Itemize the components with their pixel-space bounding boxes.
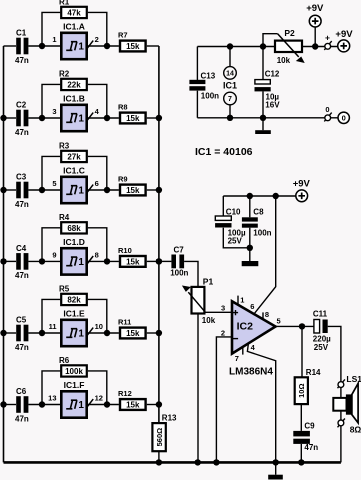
node junction left bus stage 2 <box>0 115 6 121</box>
inverter IC1.F <box>61 380 93 418</box>
wire P2 right to +9V terminals <box>302 46 338 48</box>
pin 9 (IC1.D input) <box>52 250 56 259</box>
svg-text:1: 1 <box>78 42 84 53</box>
wire IC1.F output to R12 <box>88 404 119 406</box>
node junction P1 ground <box>195 459 201 465</box>
svg-text:+9V: +9V <box>335 29 353 40</box>
capacitor C3 <box>15 173 29 209</box>
wire R7 to mix bus <box>147 45 159 47</box>
resistor R9 <box>118 175 146 196</box>
svg-text:R7: R7 <box>118 31 128 40</box>
svg-text:IC1: IC1 <box>223 81 237 91</box>
wire feedback left (input up to R6) <box>42 371 60 405</box>
svg-text:8Ω: 8Ω <box>350 424 361 434</box>
inverter IC1.E <box>61 308 93 346</box>
wire feedback right (R5 to output) <box>88 299 107 333</box>
node junction IC1 pin7 bottom <box>227 115 233 121</box>
svg-text:1: 1 <box>78 329 84 340</box>
pin 12 (IC1.F output) <box>95 393 103 402</box>
wire C1 to IC1.A input <box>28 45 60 47</box>
node output junction stage 4 <box>104 258 110 264</box>
node junction C9 ground <box>298 459 304 465</box>
pin 1 (IC1.A input) <box>52 35 56 44</box>
svg-text:R8: R8 <box>118 103 128 112</box>
svg-text:C12: C12 <box>265 70 280 79</box>
node junction mix bus stage 3 <box>156 187 162 193</box>
svg-text:560Ω: 560Ω <box>155 428 164 447</box>
node junction R13 ground <box>156 459 162 465</box>
node input junction stage 6 <box>39 401 45 407</box>
node junction left bus stage 4 <box>0 258 6 264</box>
resistor R6 <box>59 356 87 376</box>
svg-text:6: 6 <box>95 179 99 188</box>
svg-text:C10: C10 <box>226 207 241 216</box>
pin 2 (IC1.A output) <box>95 35 99 44</box>
pin 3 (IC1.B input) <box>52 107 56 116</box>
ground symbol power section <box>255 121 271 135</box>
capacitor C6 <box>15 387 29 423</box>
wire LS1 bottom to ground rail <box>340 426 342 463</box>
svg-text:1: 1 <box>78 400 84 411</box>
svg-text:R12: R12 <box>118 389 132 398</box>
node input junction stage 5 <box>39 330 45 336</box>
svg-text:3: 3 <box>221 303 225 312</box>
capacitor C10 <box>215 196 250 248</box>
op-amp IC2 LM386 <box>232 301 276 353</box>
node output junction stage 2 <box>104 115 110 121</box>
wire P1 wiper to pin3 <box>205 311 232 313</box>
svg-text:7: 7 <box>228 96 232 103</box>
wire R8 to mix bus <box>147 117 159 119</box>
resistor R14 <box>295 368 321 404</box>
capacitor C9 <box>293 422 318 452</box>
node junction pin6 rail <box>273 193 279 199</box>
wire IC1.E output to R11 <box>88 332 119 334</box>
wire feedback left (input up to R4) <box>42 228 60 262</box>
inverter IC1.C <box>61 165 93 203</box>
node output junction stage 3 <box>104 187 110 193</box>
svg-text:16V: 16V <box>265 101 280 110</box>
svg-text:C13: C13 <box>201 72 216 81</box>
node junction C12 top <box>260 43 266 49</box>
wire IC1.A output to R7 <box>88 45 119 47</box>
svg-text:1: 1 <box>78 114 84 125</box>
svg-text:8: 8 <box>265 310 269 319</box>
svg-text:8: 8 <box>95 250 99 259</box>
svg-text:R1: R1 <box>59 0 70 7</box>
resistor R11 <box>118 318 146 339</box>
svg-text:82k: 82k <box>67 295 81 304</box>
svg-text:47n: 47n <box>15 414 29 423</box>
pin 7 (IC2) <box>235 347 243 363</box>
svg-text:47k: 47k <box>67 8 81 17</box>
svg-text:22k: 22k <box>67 80 81 89</box>
pin 3 (IC2) <box>221 303 225 312</box>
wire feedback right (R2 to output) <box>88 84 107 118</box>
svg-text:100n: 100n <box>253 229 271 238</box>
wire bottom ground rail <box>4 461 341 464</box>
svg-text:25V: 25V <box>228 237 243 246</box>
svg-text:R2: R2 <box>59 70 70 79</box>
svg-text:0: 0 <box>325 105 329 114</box>
svg-text:C9: C9 <box>304 422 315 431</box>
resistor R12 <box>118 389 146 410</box>
node input junction stage 4 <box>39 258 45 264</box>
node input junction stage 3 <box>39 187 45 193</box>
svg-text:2: 2 <box>221 328 225 337</box>
wire from left bus to C5 <box>4 332 17 334</box>
wire amp supply rail <box>223 195 295 197</box>
svg-text:47n: 47n <box>15 56 29 65</box>
svg-text:1: 1 <box>240 295 244 304</box>
capacitor C1 <box>15 29 29 65</box>
resistor R13 <box>152 414 177 452</box>
wire C5 to IC1.E input <box>28 332 60 334</box>
svg-text:47n: 47n <box>15 200 29 209</box>
svg-text:1: 1 <box>78 257 84 268</box>
wire feedback right (R3 to output) <box>88 156 107 190</box>
svg-text:C7: C7 <box>174 246 185 255</box>
svg-text:R13: R13 <box>162 414 177 423</box>
svg-text:2: 2 <box>95 35 99 44</box>
pin 10 (IC1.E output) <box>95 322 103 331</box>
svg-text:P1: P1 <box>203 276 214 286</box>
svg-text:C3: C3 <box>16 173 27 182</box>
svg-text:R11: R11 <box>118 318 131 327</box>
svg-text:1: 1 <box>78 186 84 197</box>
node junction C12 bottom <box>260 115 266 121</box>
svg-text:IC1 = 40106: IC1 = 40106 <box>195 146 253 158</box>
pin 13 (IC1.F input) <box>48 393 56 402</box>
inverter IC1.D <box>61 237 93 275</box>
wire R14 to C9 <box>300 404 302 431</box>
wire C2 to IC1.B input <box>28 117 60 119</box>
wire feedback right (R6 to output) <box>88 371 107 405</box>
svg-text:R4: R4 <box>59 213 70 222</box>
node junction mix bus stage 6 <box>156 401 162 407</box>
svg-text:C5: C5 <box>16 316 27 325</box>
node junction mix bus stage 5 <box>156 330 162 336</box>
node junction IC1 pin14 top <box>227 43 233 49</box>
pin 6 (IC2 supply) wire <box>250 196 276 314</box>
node junction left bus stage 5 <box>0 330 6 336</box>
wire IC1 supply top rail <box>197 46 275 48</box>
capacitor C2 <box>15 101 29 137</box>
pin 4 (IC1.B output) <box>95 107 100 116</box>
wire C4 to IC1.D input <box>28 260 60 262</box>
svg-text:100n: 100n <box>170 268 188 277</box>
svg-text:10Ω: 10Ω <box>297 384 306 398</box>
svg-text:R9: R9 <box>118 175 128 184</box>
svg-text:C4: C4 <box>16 244 27 253</box>
svg-text:47n: 47n <box>15 343 29 352</box>
power +9V supply circle amp <box>293 178 311 201</box>
svg-text:C11: C11 <box>313 309 328 318</box>
wire R11 to mix bus <box>147 332 159 334</box>
svg-text:P2: P2 <box>284 28 295 38</box>
node junction output <box>299 323 305 329</box>
wire IC1.B output to R8 <box>88 117 119 119</box>
node junction C8 top <box>247 193 253 199</box>
pin 1 (IC2) <box>238 295 244 305</box>
svg-text:C8: C8 <box>253 207 264 216</box>
wire feedback left (input up to R1) <box>42 12 60 46</box>
capacitor C7 <box>170 246 188 278</box>
svg-text:14: 14 <box>226 71 234 78</box>
svg-text:1: 1 <box>52 35 56 44</box>
label LM386N4 <box>229 367 273 378</box>
node junction mix bus stage 4 <box>156 258 162 264</box>
svg-text:15k: 15k <box>126 400 140 409</box>
svg-text:0: 0 <box>342 113 346 122</box>
pin 4 (IC2) wire <box>247 343 275 463</box>
svg-text:R14: R14 <box>306 368 321 377</box>
wire output to R14 <box>301 326 303 377</box>
svg-text:5: 5 <box>52 179 56 188</box>
node input junction stage 2 <box>39 115 45 121</box>
svg-text:IC1.E: IC1.E <box>63 308 85 318</box>
wire from left bus to C6 <box>4 404 17 406</box>
svg-text:C6: C6 <box>16 387 27 396</box>
wire IC1.D output to R10 <box>88 260 119 262</box>
wire from left bus to C2 <box>4 117 17 119</box>
pin 2 (IC2) wire <box>216 328 232 462</box>
capacitor C11 <box>313 309 331 352</box>
svg-text:68k: 68k <box>67 224 81 233</box>
svg-text:C1: C1 <box>16 29 27 38</box>
svg-text:C2: C2 <box>16 101 27 110</box>
wire feedback left (input up to R2) <box>42 84 60 118</box>
svg-text:IC1.B: IC1.B <box>63 93 85 103</box>
svg-text:100k: 100k <box>65 367 83 376</box>
svg-text:IC1.D: IC1.D <box>63 237 85 247</box>
wire C9 to ground rail <box>300 444 302 463</box>
resistor R8 <box>118 103 146 124</box>
node junction pin2 ground <box>213 459 219 465</box>
wire R9 to mix bus <box>147 189 159 191</box>
svg-text:47n: 47n <box>15 271 29 280</box>
pin 11 (IC1.E input) <box>49 322 57 331</box>
svg-text:27k: 27k <box>67 152 81 161</box>
wire right mix bus <box>158 46 160 423</box>
wire from left bus to C1 <box>4 45 17 47</box>
resistor R5 <box>59 285 87 305</box>
node terminal LS1 top <box>338 379 345 388</box>
node terminal LS1 bottom <box>338 419 345 428</box>
node input junction stage 1 <box>39 43 45 49</box>
wire from left bus to C4 <box>4 260 17 262</box>
label IC1 = 40106 <box>195 146 253 158</box>
svg-text:3: 3 <box>52 107 56 116</box>
pin 6 (IC1.C output) <box>95 179 99 188</box>
resistor R4 <box>59 213 87 234</box>
wire R10 to mix bus <box>147 260 159 262</box>
wire from left bus to C3 <box>4 189 17 191</box>
wire C6 to IC1.F input <box>28 404 60 406</box>
svg-text:15k: 15k <box>126 257 140 266</box>
svg-text:LS1: LS1 <box>346 374 361 384</box>
op-amp U IC1 supply pins <box>223 47 237 118</box>
node junction C7 tap <box>156 258 162 264</box>
svg-text:9: 9 <box>52 250 56 259</box>
svg-text:15k: 15k <box>126 329 140 338</box>
capacitor C8 <box>242 196 272 248</box>
node junction C8 bottom <box>247 245 253 251</box>
wire P1 bottom to ground rail <box>197 314 199 463</box>
svg-text:+9V: +9V <box>293 178 311 189</box>
svg-text:11: 11 <box>49 322 57 331</box>
wire R12 to mix bus <box>147 404 159 406</box>
svg-text:5: 5 <box>277 316 281 325</box>
svg-text:100n: 100n <box>201 91 219 100</box>
pin 8 (IC1.D output) <box>95 250 99 259</box>
svg-text:10: 10 <box>95 322 103 331</box>
svg-text:R3: R3 <box>59 142 70 151</box>
capacitor C13 <box>189 47 219 118</box>
svg-text:47n: 47n <box>304 443 318 452</box>
node junction left bus stage 3 <box>0 187 6 193</box>
pin 5 (IC1.C input) <box>52 179 56 188</box>
potentiometer P1 <box>184 276 216 325</box>
wire feedback left (input up to R5) <box>42 299 60 333</box>
svg-text:13: 13 <box>48 393 56 402</box>
svg-text:R5: R5 <box>59 285 70 294</box>
node output junction stage 6 <box>104 401 110 407</box>
resistor R7 <box>118 31 146 52</box>
pin 5 (IC2 output) wire <box>276 316 314 326</box>
capacitor C4 <box>15 244 29 280</box>
capacitor C12 <box>255 47 281 118</box>
svg-text:R6: R6 <box>59 356 70 365</box>
inverter IC1.B <box>61 93 93 131</box>
svg-text:6: 6 <box>250 302 254 311</box>
svg-text:7: 7 <box>235 354 239 363</box>
wire C7 to P1 <box>184 261 198 287</box>
wire IC1.C output to R9 <box>88 189 119 191</box>
svg-text:25V: 25V <box>314 343 329 352</box>
node junction mix bus stage 2 <box>156 115 162 121</box>
svg-text:IC2: IC2 <box>237 321 254 333</box>
ground symbol amp supply <box>242 248 259 266</box>
node output junction stage 5 <box>104 330 110 336</box>
svg-text:IC1.A: IC1.A <box>63 21 85 31</box>
svg-text:+9V: +9V <box>306 3 324 14</box>
node terminal + battery <box>324 32 331 50</box>
loudspeaker LS1 <box>333 374 361 434</box>
resistor R10 <box>118 246 146 267</box>
wire IC1 supply bottom rail <box>197 117 338 119</box>
node junction +9V rail <box>312 43 318 49</box>
svg-text:15k: 15k <box>126 186 140 195</box>
potentiometer P2 <box>263 28 303 65</box>
resistor R3 <box>59 142 87 163</box>
svg-text:47n: 47n <box>15 128 29 137</box>
node junction pin4 ground <box>273 459 279 465</box>
ground symbol bottom <box>268 462 283 479</box>
svg-text:12: 12 <box>95 393 103 402</box>
svg-text:15k: 15k <box>126 114 140 123</box>
resistor R2 <box>59 70 87 91</box>
wire feedback right (R1 to output) <box>88 12 107 46</box>
wire feedback left (input up to R3) <box>42 156 60 190</box>
node 0 circle right <box>338 112 349 123</box>
wire C3 to IC1.C input <box>28 189 60 191</box>
svg-text:10k: 10k <box>277 56 291 65</box>
inverter IC1.A <box>61 21 93 59</box>
svg-text:15k: 15k <box>126 42 140 51</box>
wire left ground bus <box>3 46 5 462</box>
svg-text:+: + <box>325 32 330 42</box>
power +9V battery circle right <box>335 29 353 52</box>
wire mix bus to C7 <box>159 260 172 262</box>
wire feedback right (R4 to output) <box>88 228 107 262</box>
svg-text:R10: R10 <box>118 246 132 255</box>
svg-text:LM386N4: LM386N4 <box>229 367 273 378</box>
wire R13 bottom to ground rail <box>158 451 160 462</box>
svg-text:10k: 10k <box>202 316 216 325</box>
wire C11 to LS1 <box>328 326 341 381</box>
node terminal 0 <box>324 105 331 122</box>
node junction left bus stage 6 <box>0 401 6 407</box>
pin 8 (IC2) <box>263 310 269 319</box>
svg-text:IC1.C: IC1.C <box>63 165 85 175</box>
svg-text:IC1.F: IC1.F <box>64 380 85 390</box>
node output junction stage 1 <box>104 43 110 49</box>
power +9V supply circle top <box>306 3 324 46</box>
resistor R1 <box>59 0 87 18</box>
capacitor C5 <box>15 316 29 352</box>
